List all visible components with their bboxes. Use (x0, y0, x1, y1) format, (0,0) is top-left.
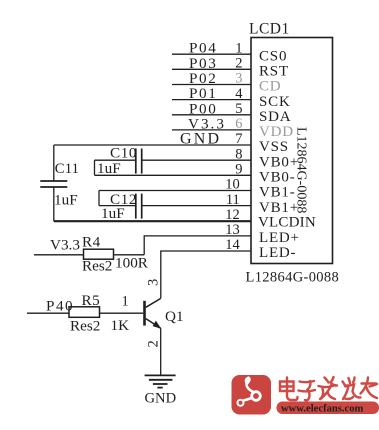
svg-text:3: 3 (146, 279, 162, 286)
svg-text:7: 7 (235, 131, 242, 147)
svg-text:1: 1 (122, 294, 129, 310)
op-amp U1 LCD1 component box (251, 38, 333, 264)
svg-text:VLCDIN: VLCDIN (258, 215, 316, 231)
svg-text:1uF: 1uF (97, 160, 121, 177)
wire left rail lower (C11 bottom lead) (53, 187, 55, 221)
wire pin14 LED- to Q1 collector (161, 251, 251, 298)
svg-text:VDD: VDD (259, 124, 294, 140)
svg-text:2: 2 (146, 340, 162, 347)
svg-text:LCD1: LCD1 (249, 21, 290, 38)
svg-text:L12864G-0088: L12864G-0088 (246, 269, 340, 285)
wire C12 left connector vertical (98, 191, 100, 206)
svg-text:Res2: Res2 (70, 317, 100, 334)
wire pin6 net V3.3 (172, 129, 251, 131)
wire pin8 right segment (142, 159, 251, 161)
wire pin2 net P03 (172, 68, 251, 70)
svg-text:3: 3 (235, 71, 242, 87)
svg-text:11: 11 (226, 192, 240, 208)
svg-text:8: 8 (235, 146, 242, 162)
transistor Q1 (143, 298, 161, 328)
wire C10 left connector vertical (94, 160, 96, 175)
wire pin11 right segment (142, 205, 251, 207)
svg-text:VSS: VSS (259, 139, 289, 155)
wire V3.3 to R4 (34, 254, 84, 256)
capacitor C10 (136, 149, 142, 174)
wire pin10 (99, 190, 251, 192)
wire left rail upper (C11 top lead) (53, 145, 55, 181)
svg-text:GND: GND (145, 390, 177, 406)
ground symbol (145, 375, 176, 387)
wire pin8 left segment (95, 159, 136, 161)
watermark logo elecfans (232, 375, 272, 415)
svg-text:2: 2 (235, 56, 242, 72)
svg-text:10: 10 (225, 177, 240, 193)
wire R4 right segment (114, 254, 145, 256)
svg-text:9: 9 (235, 162, 242, 178)
svg-text:RST: RST (259, 64, 289, 80)
resistor R5 (69, 307, 100, 318)
wire pin1 net P04 (172, 53, 251, 55)
svg-text:Q1: Q1 (165, 308, 184, 325)
svg-text:CS0: CS0 (259, 48, 287, 64)
svg-text:CD: CD (259, 79, 281, 95)
wire pin5 net P00 (172, 114, 251, 116)
svg-text:VB1+: VB1+ (259, 200, 299, 216)
svg-text:R4: R4 (82, 233, 101, 250)
watermark url band (277, 402, 379, 415)
svg-text:VB0+: VB0+ (259, 154, 299, 170)
svg-text:1uF: 1uF (54, 192, 78, 209)
svg-text:1: 1 (235, 40, 242, 56)
svg-text:C11: C11 (55, 161, 79, 177)
svg-text:LED-: LED- (259, 245, 296, 261)
svg-text:1uF: 1uF (101, 205, 125, 222)
svg-text:1K: 1K (111, 317, 130, 334)
svg-text:Res2: Res2 (82, 258, 112, 275)
capacitor C12 (136, 194, 142, 219)
svg-text:VB0-: VB0- (259, 170, 296, 186)
svg-text:13: 13 (225, 222, 240, 238)
svg-text:4: 4 (235, 86, 243, 102)
svg-text:V3.3: V3.3 (50, 236, 80, 253)
watermark brand text 电子发烧友 (stylized strokes) (280, 377, 377, 400)
svg-text:SCK: SCK (259, 94, 291, 110)
svg-text:P40: P40 (46, 298, 74, 315)
svg-text:6: 6 (235, 116, 242, 132)
capacitor C11 (40, 181, 67, 187)
svg-text:VB1-: VB1- (259, 185, 296, 201)
wire pin11 left segment (99, 205, 136, 207)
svg-text:R5: R5 (82, 292, 101, 309)
wire pin9 (95, 174, 252, 176)
wire Q1 emitter to GND (160, 328, 162, 375)
wire pin12 bottom rail (54, 220, 251, 222)
svg-text:12: 12 (225, 207, 240, 223)
wire pin3 net P02 (172, 84, 251, 86)
svg-text:100R: 100R (115, 255, 149, 272)
wire P40 to R5 (27, 312, 69, 314)
svg-text:GND: GND (180, 131, 221, 148)
svg-text:www.elecfans.com: www.elecfans.com (281, 404, 364, 415)
wire R5 to Q1 base (100, 312, 144, 314)
svg-text:SDA: SDA (259, 109, 291, 125)
svg-text:14: 14 (225, 237, 240, 253)
wire pin13 LED+ (144, 236, 251, 255)
wire pin4 net P01 (172, 99, 251, 101)
resistor R4 (84, 249, 114, 259)
svg-text:5: 5 (235, 101, 242, 117)
svg-text:LED+: LED+ (259, 230, 300, 246)
wire pin7 net GND (54, 144, 251, 146)
svg-text:C10: C10 (110, 144, 137, 161)
